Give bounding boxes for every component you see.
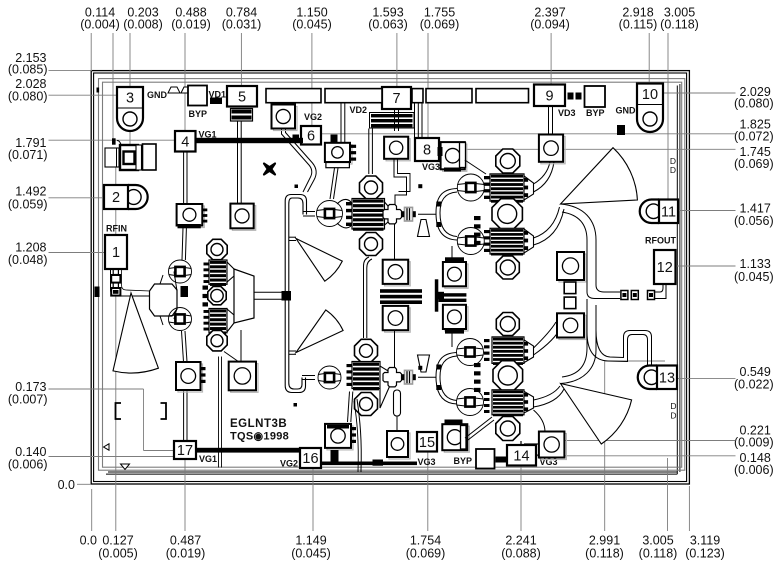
fiducial dot a bbox=[295, 185, 299, 189]
dimension 0.0 bottom bbox=[80, 489, 97, 548]
dimension 0.0 left bbox=[58, 478, 91, 492]
node interstage-2 junction bbox=[383, 205, 416, 224]
FET Q2 gate ticks bbox=[346, 202, 352, 226]
FET Q5 gate ticks lower bbox=[484, 392, 490, 413]
FET Q3 active block bbox=[352, 362, 380, 391]
svg-text:VG2: VG2 bbox=[304, 112, 322, 122]
dimension 1.133 (0.045) right bbox=[676, 257, 774, 284]
fiducial dot b bbox=[418, 184, 422, 188]
dimension 1.149 bottom bbox=[291, 468, 331, 561]
FET Q5 active block upper bbox=[492, 337, 524, 365]
svg-text:RFOUT: RFOUT bbox=[645, 236, 676, 246]
svg-text:(0.115): (0.115) bbox=[619, 18, 658, 32]
wire fan neck lower bbox=[289, 351, 296, 354]
capacitor C-VD1 dark bbox=[231, 109, 253, 122]
svg-text:11: 11 bbox=[661, 204, 676, 220]
dimension 1.492 (0.059) left bbox=[8, 185, 104, 212]
FET Q3 source via top bbox=[355, 339, 378, 362]
wire drain to fan lower bbox=[534, 386, 561, 400]
FET Q4 center via bbox=[492, 199, 522, 229]
svg-text:3.005: 3.005 bbox=[642, 534, 673, 548]
svg-text:(0.008): (0.008) bbox=[123, 18, 163, 32]
svg-text:(0.080): (0.080) bbox=[734, 97, 774, 111]
wire VG1 bus bbox=[196, 138, 304, 143]
capacitor link BYP-14 bbox=[496, 457, 507, 463]
svg-text:(0.085): (0.085) bbox=[8, 63, 48, 77]
wire hairpin to stage3 upper bbox=[436, 189, 457, 241]
svg-text:4: 4 bbox=[181, 134, 189, 150]
svg-text:(0.123): (0.123) bbox=[685, 547, 725, 561]
wire output main lower bbox=[561, 305, 597, 384]
bond pad 16 (VG2) bbox=[300, 448, 321, 468]
FET Q5 center via bbox=[493, 361, 523, 391]
svg-text:17: 17 bbox=[177, 443, 193, 459]
bond pad 14 (VG3) bbox=[507, 445, 536, 466]
svg-text:(0.059): (0.059) bbox=[8, 198, 48, 212]
dimension 1.825 (0.072) right bbox=[321, 118, 774, 144]
die seal ring inner bbox=[103, 82, 682, 467]
FET Q5 gate ticks upper bbox=[484, 339, 490, 361]
svg-text:(0.031): (0.031) bbox=[222, 18, 262, 32]
wire input corner bbox=[117, 141, 121, 146]
capacitor C1a bbox=[177, 204, 208, 228]
capacitor C1c bbox=[176, 362, 206, 392]
capacitor C-VD2 dark bbox=[370, 113, 415, 129]
FET Q3 gate ticks bbox=[347, 364, 353, 386]
svg-text:TQS◉1998: TQS◉1998 bbox=[230, 431, 289, 443]
alignment cross mark bbox=[264, 164, 275, 175]
radial stub fan input-left bbox=[113, 293, 158, 373]
svg-text:(0.118): (0.118) bbox=[585, 547, 624, 561]
dimension origin extension line top bbox=[90, 33, 92, 70]
svg-text:VD3: VD3 bbox=[558, 108, 576, 118]
svg-text:D: D bbox=[670, 411, 676, 421]
capacitor chain under pad1 bbox=[111, 270, 120, 296]
wire zigzag VD2 feed bbox=[394, 159, 407, 205]
FET Q4 drain cone lower bbox=[524, 229, 534, 253]
FET Q4 gate ticks upper bbox=[484, 176, 490, 199]
radial stub fan center-upper bbox=[296, 239, 342, 282]
svg-text:1.754: 1.754 bbox=[410, 534, 441, 548]
top bus bar 3 bbox=[412, 89, 423, 103]
svg-text:VG3: VG3 bbox=[418, 457, 436, 467]
svg-text:1: 1 bbox=[112, 245, 120, 261]
svg-text:7: 7 bbox=[392, 91, 400, 107]
svg-text:8: 8 bbox=[423, 143, 431, 159]
svg-text:D: D bbox=[670, 401, 676, 411]
svg-text:(0.019): (0.019) bbox=[166, 547, 206, 561]
wire C-mid2 stems bbox=[451, 246, 453, 262]
dimension 1.593 (0.063) top bbox=[368, 6, 408, 88]
dimension 2.028 (0.080) left bbox=[8, 77, 117, 104]
wire VG2 feed diagonal bbox=[282, 129, 317, 192]
wire pad7 stem bbox=[395, 109, 399, 131]
svg-text:(0.063): (0.063) bbox=[368, 18, 408, 32]
capacitor C-pad15-left bbox=[387, 431, 410, 459]
dimension 1.208 (0.048) left bbox=[8, 241, 105, 268]
wire VD2 drain feed bbox=[369, 129, 373, 175]
capacitor blob right of pad6 bbox=[331, 135, 338, 143]
capacitor link pad8-C8 bbox=[438, 147, 443, 156]
svg-text:GND: GND bbox=[616, 106, 637, 116]
svg-text:12: 12 bbox=[657, 260, 673, 276]
svg-text:D: D bbox=[670, 165, 676, 175]
svg-text:(0.045): (0.045) bbox=[292, 18, 332, 32]
wire pad9 stem bbox=[549, 106, 553, 134]
wire VG2 feed diagonal lower bbox=[348, 392, 353, 423]
gate ring via Q4b bbox=[457, 228, 484, 255]
dimension 3.119 bottom bbox=[685, 486, 725, 561]
capacitor bars interstage-2L bbox=[436, 365, 441, 391]
capacitor BYP top-left bbox=[188, 86, 207, 106]
gate bus contacts Q1 bbox=[203, 286, 209, 307]
wire stage1 ground drop bbox=[219, 357, 222, 468]
capacitor C-out-lower bbox=[557, 313, 586, 339]
wire output main upper bbox=[561, 204, 597, 285]
gate ring via Q4a bbox=[457, 174, 484, 201]
resistor bars mid2 bbox=[435, 279, 467, 311]
node interstage-2L junction bbox=[383, 368, 416, 387]
dimension 1.417 (0.056) right bbox=[679, 202, 774, 229]
svg-text:(0.045): (0.045) bbox=[291, 547, 331, 561]
svg-text:(0.007): (0.007) bbox=[8, 393, 48, 407]
radial stub small lower bbox=[418, 355, 430, 372]
capacitor C16 bbox=[325, 424, 356, 450]
svg-text:(0.071): (0.071) bbox=[8, 148, 48, 162]
dimension 0.549 (0.022) right bbox=[678, 365, 774, 392]
capacitor C-VD3 upper bbox=[539, 135, 565, 164]
wire C14 links bbox=[524, 443, 539, 445]
radial stub fan center-lower bbox=[296, 310, 343, 353]
FET Q4 source via bottom bbox=[496, 256, 519, 279]
dimension 3.005 bottom bbox=[639, 458, 678, 561]
svg-text:BYP: BYP bbox=[454, 456, 473, 466]
dimension 2.397 (0.094) top bbox=[530, 6, 570, 85]
svg-text:(0.022): (0.022) bbox=[734, 378, 774, 392]
wire bus to pad8 bbox=[415, 103, 423, 138]
capacitor C1d bbox=[229, 362, 258, 393]
capacitor C-mid2-b bbox=[443, 305, 468, 334]
FET Q1 gate ticks upper bbox=[204, 263, 209, 284]
dimension 0.784 (0.031) top bbox=[222, 6, 262, 87]
svg-text:(0.072): (0.072) bbox=[734, 130, 774, 144]
wire gate arcs Q2 bbox=[337, 199, 351, 227]
FET Q5 drain cone upper bbox=[524, 340, 534, 363]
bond pad 1 (RFIN) bbox=[105, 235, 127, 269]
wire center VG2 feed column bbox=[285, 195, 315, 393]
FET Q2 source via top bbox=[360, 176, 383, 199]
capacitor C14-right bbox=[539, 432, 567, 460]
top bus bar 1 bbox=[266, 89, 321, 103]
capacitor BYP bottom bbox=[476, 449, 495, 469]
bond pad 7 (VD2) bbox=[382, 87, 411, 109]
bond pad 11 bbox=[640, 200, 678, 224]
svg-text:BYP: BYP bbox=[189, 109, 208, 119]
svg-text:BYP: BYP bbox=[586, 108, 605, 118]
FET Q1 active block upper bbox=[209, 260, 227, 286]
bond pad 3 (GND) with via bbox=[117, 87, 143, 131]
bond pad 12 (RFOUT) bbox=[654, 250, 676, 284]
dimension 2.241 bottom bbox=[501, 465, 541, 561]
fiducial dot c bbox=[294, 403, 298, 407]
svg-text:(0.080): (0.080) bbox=[8, 90, 48, 104]
wire node to stub bbox=[418, 213, 436, 215]
wire VG2 bus bottom bbox=[321, 462, 417, 466]
bond pad 8 (VG3) bbox=[415, 138, 439, 161]
svg-text:(0.118): (0.118) bbox=[639, 547, 678, 561]
wire bottom drain curve bbox=[534, 410, 546, 432]
FET Q4 gate ticks lower bbox=[484, 230, 490, 252]
bond pad 10 (GND) with via bbox=[637, 84, 663, 133]
capacitor C7a bbox=[325, 143, 356, 168]
capacitor dark on column bbox=[181, 286, 189, 297]
capacitor series out 1 bbox=[621, 291, 628, 300]
marker down triangle bbox=[121, 464, 130, 470]
capacitor C1b bbox=[230, 204, 255, 231]
wire fan neck upper bbox=[289, 237, 296, 240]
capacitor C7b bbox=[384, 137, 410, 161]
radial stub small upper bbox=[418, 220, 430, 237]
gate ring via Q5a bbox=[457, 339, 484, 366]
svg-text:1.492: 1.492 bbox=[15, 185, 46, 199]
capacitor series out 2 bbox=[631, 291, 638, 300]
wire stage2 series link bbox=[364, 257, 373, 338]
FET Q5 active block lower bbox=[492, 390, 524, 416]
svg-text:(0.088): (0.088) bbox=[501, 547, 541, 561]
dimension 2.991 (0.118) bottom with jog leader bbox=[585, 361, 665, 561]
wire stub to cap link bbox=[396, 416, 398, 431]
FET Q5 source via top bbox=[496, 313, 519, 336]
top bus bar 5 bbox=[476, 89, 529, 103]
svg-text:9: 9 bbox=[545, 88, 553, 104]
tick on left seal bbox=[95, 287, 100, 298]
dimension 0.114 (0.004) top bbox=[80, 6, 120, 140]
wire pad14 stem bbox=[520, 441, 522, 445]
capacitor dark near pad11 bbox=[617, 125, 625, 135]
svg-text:VG2: VG2 bbox=[280, 459, 298, 469]
die seal ring outer bbox=[99, 79, 685, 471]
wire output stub to pad12 bbox=[596, 285, 620, 292]
gate ring via Q2 bbox=[317, 201, 343, 227]
dimension 0.140 (0.006) left bbox=[8, 445, 196, 472]
capacitor link VD3 bbox=[568, 93, 582, 100]
FET Q2 drain cone bbox=[385, 202, 392, 225]
bond pad 17 (VG1) bbox=[174, 441, 196, 459]
radial stub fan output-upper bbox=[561, 148, 638, 204]
dimension 2.918 (0.115) top bbox=[619, 6, 658, 84]
wire to pad12 bbox=[655, 284, 664, 292]
wire pad5 stem bbox=[238, 121, 242, 204]
FET Q1 active block lower bbox=[209, 309, 227, 335]
dimension 1.745 (0.069) right bbox=[439, 145, 774, 171]
svg-text:(0.006): (0.006) bbox=[8, 458, 48, 472]
svg-text:0.127: 0.127 bbox=[102, 534, 133, 548]
dimension 0.148 (0.006) right bbox=[536, 451, 774, 477]
dimension 0.127 bottom bbox=[98, 150, 138, 561]
capacitor C8 (VG3) bbox=[441, 142, 467, 171]
bond pad 15 (VG3) bbox=[417, 432, 437, 452]
dimension 0.487 bottom bbox=[166, 459, 206, 561]
input DC-block assembly bbox=[105, 144, 156, 170]
capacitor dark C16 stem bbox=[331, 450, 339, 462]
gate bus contacts Q5 bbox=[474, 363, 481, 392]
top bus bar 2 bbox=[325, 89, 382, 103]
capacitor blob on VG2 bus bbox=[373, 460, 384, 466]
gate bus contacts Q4 bbox=[474, 216, 481, 245]
bond pad 13 bbox=[638, 366, 677, 390]
capacitor C15 (VG3) bbox=[442, 420, 469, 453]
capacitor link VD1 bbox=[210, 98, 222, 105]
dimension 1.150 (0.045) top bbox=[292, 6, 332, 127]
svg-text:2.241: 2.241 bbox=[505, 534, 536, 548]
wire C1d stem bbox=[240, 330, 242, 362]
svg-text:14: 14 bbox=[513, 448, 529, 464]
capacitor under pad6 bbox=[272, 105, 298, 131]
wire column below stage1 bbox=[182, 331, 188, 362]
svg-text:(0.056): (0.056) bbox=[734, 214, 774, 228]
capacitor blob left of pad6 bbox=[293, 135, 300, 142]
svg-text:(0.045): (0.045) bbox=[734, 270, 774, 284]
capacitor squares output bbox=[564, 282, 576, 309]
die outline outer frame bbox=[91, 71, 689, 484]
svg-text:(0.094): (0.094) bbox=[530, 18, 570, 32]
capacitor on stage1 output bbox=[282, 291, 292, 301]
svg-text:(0.118): (0.118) bbox=[660, 18, 699, 32]
capacitor tick on input line bbox=[112, 138, 116, 144]
wire drain to cap lower bbox=[534, 322, 557, 348]
svg-text:2: 2 bbox=[112, 190, 120, 206]
bond pad 6 (VG2) bbox=[301, 126, 321, 145]
dimension 0.221 (0.009) right bbox=[563, 424, 774, 450]
svg-text:(0.009): (0.009) bbox=[734, 436, 774, 450]
bond pad 2 bbox=[104, 185, 148, 209]
svg-text:(0.019): (0.019) bbox=[171, 18, 211, 32]
wire output meander bbox=[596, 305, 652, 366]
wire C15 diag bbox=[465, 417, 494, 442]
wire C7a to ring diagonal bbox=[330, 168, 338, 199]
svg-text:EGLNT3B: EGLNT3B bbox=[230, 418, 287, 430]
svg-text:(0.005): (0.005) bbox=[98, 547, 138, 561]
svg-text:3.119: 3.119 bbox=[690, 534, 720, 548]
FET Q5 drain cone lower bbox=[524, 391, 534, 413]
marker left triangle bbox=[104, 444, 110, 450]
FET Q2 active block bbox=[352, 199, 385, 231]
FET Q1 source via bottom bbox=[207, 331, 227, 351]
FET Q1 drain cone upper bbox=[227, 262, 234, 282]
svg-text:(0.069): (0.069) bbox=[406, 547, 446, 561]
svg-text:3: 3 bbox=[126, 91, 134, 107]
wire stage2 lower drop bbox=[357, 399, 361, 472]
wire column to pad17 bbox=[184, 390, 187, 441]
FET Q4 active block lower bbox=[490, 228, 524, 255]
tick on top-left seal bbox=[97, 88, 100, 93]
FET Q1 source via top bbox=[207, 239, 227, 259]
wire node to stub lower bbox=[418, 376, 436, 378]
FET Q5 source via bottom bbox=[496, 417, 520, 441]
die outline second frame bbox=[94, 73, 687, 482]
gate ring via Q5b bbox=[457, 389, 484, 416]
svg-text:0.0: 0.0 bbox=[80, 534, 97, 548]
svg-text:(0.006): (0.006) bbox=[734, 463, 774, 477]
svg-text:1.133: 1.133 bbox=[740, 257, 771, 271]
dimension 1.755 (0.069) top bbox=[420, 6, 460, 139]
radial stub fan output-lower bbox=[561, 384, 632, 445]
svg-text:13: 13 bbox=[659, 370, 675, 386]
svg-text:VG3: VG3 bbox=[422, 162, 440, 172]
svg-text:0.487: 0.487 bbox=[170, 534, 201, 548]
FET Q1 drain cone lower bbox=[227, 309, 234, 332]
dimension 2.153 (0.085) left bbox=[8, 51, 92, 77]
svg-text:10: 10 bbox=[642, 87, 658, 103]
svg-text:15: 15 bbox=[419, 435, 435, 451]
wire RFIN trace bbox=[111, 269, 151, 296]
svg-text:1.149: 1.149 bbox=[295, 534, 326, 548]
capacitor C-mid2-a bbox=[443, 257, 468, 288]
dimension 0.203 (0.008) top bbox=[123, 6, 163, 152]
wire pad7-left cap stem bbox=[341, 103, 345, 143]
bond pad 9 (VD3) bbox=[534, 85, 565, 107]
wire drain to fan upper bbox=[534, 207, 560, 238]
FET Q4 source via top bbox=[496, 149, 520, 173]
svg-text:5: 5 bbox=[238, 89, 246, 105]
fiducial dot d bbox=[418, 366, 422, 370]
FET Q4 drain cone upper bbox=[524, 176, 534, 200]
svg-text:2.991: 2.991 bbox=[589, 534, 620, 548]
FET Q3 source via bottom bbox=[355, 393, 378, 416]
bond wedge marks bbox=[168, 87, 180, 93]
wire C-mid stems bbox=[394, 224, 396, 260]
marker bracket left bbox=[116, 403, 122, 419]
wire gate split stage1 bbox=[160, 272, 177, 326]
resistor bars mid bbox=[380, 289, 422, 304]
svg-text:RFIN: RFIN bbox=[106, 224, 127, 234]
wire hairpin to stage3 lower bbox=[436, 353, 457, 405]
svg-text:VD2: VD2 bbox=[350, 105, 368, 115]
bond pad 5 (VD1) bbox=[227, 86, 257, 107]
dimension 0.488 (0.019) top bbox=[171, 6, 211, 132]
FET Q4 active block upper bbox=[490, 174, 524, 203]
dimension 2.029 (0.080) right bbox=[663, 85, 774, 111]
gate ring via Q1b bbox=[169, 308, 192, 331]
capacitor BYP top-right bbox=[585, 86, 606, 107]
capacitor small bits below C15 bbox=[436, 292, 444, 300]
wire pad4 column upper bbox=[184, 152, 187, 205]
dimension 1.791 (0.071) left bbox=[8, 136, 175, 162]
wire drain to VD3 cap bbox=[534, 162, 551, 184]
dimension 3.005 (0.118) top bbox=[660, 6, 699, 200]
bond pad 4 (VG1) bbox=[175, 131, 196, 152]
wire stage1 output bbox=[254, 292, 286, 299]
wire pad4 column mid bbox=[182, 228, 186, 260]
gate manifold plate stage1 bbox=[150, 284, 178, 316]
FET Q1 center via bbox=[208, 286, 226, 304]
svg-text:GND: GND bbox=[147, 90, 168, 100]
svg-text:6: 6 bbox=[307, 128, 315, 144]
svg-text:(0.048): (0.048) bbox=[8, 253, 48, 267]
capacitor C-out-upper bbox=[557, 252, 586, 282]
capacitor C-mid-b bbox=[383, 306, 411, 332]
dimension 0.173 (0.007) left with jog leader bbox=[8, 380, 175, 451]
wire C8 to gate bbox=[465, 160, 486, 174]
top bus bar 4 bbox=[426, 89, 472, 103]
capacitor bars interstage-2 bbox=[436, 202, 441, 228]
svg-text:16: 16 bbox=[302, 451, 318, 467]
svg-text:(0.069): (0.069) bbox=[734, 157, 774, 171]
FET Q2 source via bottom bbox=[360, 233, 383, 256]
drain combiner plate stage1 bbox=[234, 269, 254, 323]
FET Q1 gate ticks lower bbox=[204, 310, 209, 331]
svg-text:0.0: 0.0 bbox=[58, 478, 75, 492]
